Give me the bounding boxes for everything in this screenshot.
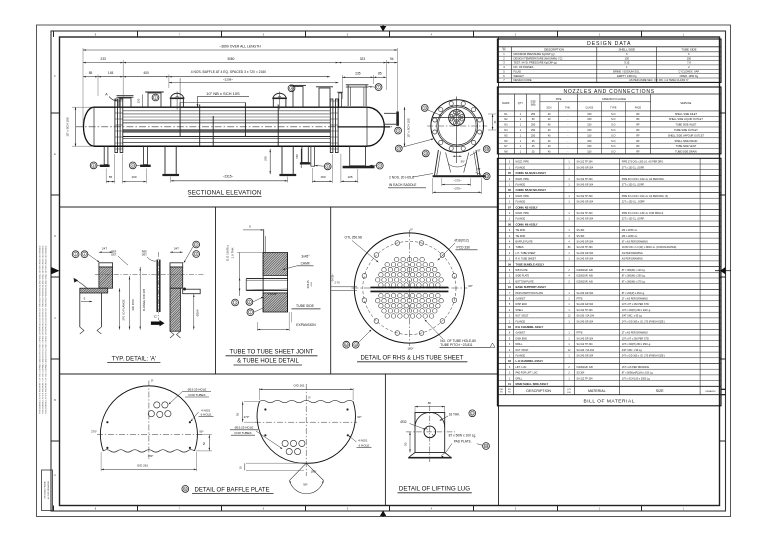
svg-text:SA 240 GR 304: SA 240 GR 304 bbox=[577, 252, 594, 255]
svg-text:150: 150 bbox=[587, 151, 592, 154]
svg-text:M: M bbox=[184, 487, 186, 491]
svg-text:8T x 50(W)x(PL)(H) x 100 Lg.: 8T x 50(W)x(PL)(H) x 100 Lg. bbox=[622, 372, 654, 375]
svg-text:C: C bbox=[54, 316, 56, 320]
svg-text:TIE ROD: TIE ROD bbox=[516, 235, 526, 238]
svg-text:SA 240 GR 304: SA 240 GR 304 bbox=[577, 355, 594, 358]
detail A: right flange hatched bbox=[149, 267, 206, 288]
svg-text:NO. OF PASSES: NO. OF PASSES bbox=[514, 65, 534, 69]
tubesheet bolt holes x12 bbox=[452, 298, 457, 303]
svg-text:FLANGE O/D 365: FLANGE O/D 365 bbox=[142, 288, 146, 311]
svg-text:PIPE 33.4 O/D x 145 LG. FOR DR: PIPE 33.4 O/D x 145 LG. FOR DRILLS bbox=[622, 212, 664, 215]
svg-text:CYCLOHEX. VAP.: CYCLOHEX. VAP. bbox=[678, 70, 699, 74]
svg-text:24T: 24T bbox=[174, 247, 179, 251]
lug base weld flare bbox=[409, 453, 450, 457]
svg-text:22T x 150 CL.,SORF.: 22T x 150 CL.,SORF. bbox=[622, 218, 645, 221]
svg-text:MATERIAL: MATERIAL bbox=[588, 389, 606, 393]
tube joint: sheet faces bbox=[262, 253, 264, 313]
svg-text:SA 193 / SA 194: SA 193 / SA 194 bbox=[577, 349, 595, 352]
svg-text:3080: 3080 bbox=[227, 57, 234, 61]
svg-text:200: 200 bbox=[263, 156, 267, 161]
svg-text:SA 312 TP 304: SA 312 TP 304 bbox=[577, 343, 594, 346]
svg-text:SS 304: SS 304 bbox=[577, 229, 586, 232]
svg-text:TUBE SIDE OUTLET: TUBE SIDE OUTLET bbox=[674, 129, 698, 132]
svg-text:A2 SIZE DRAWING: A2 SIZE DRAWING bbox=[47, 480, 50, 499]
tube joint: lower tubesheet block hatched bbox=[244, 293, 307, 312]
svg-text:Ø19.25 HOLE: Ø19.25 HOLE bbox=[235, 426, 254, 430]
svg-text:FLANGE: FLANGE bbox=[516, 320, 526, 323]
detail A: dim line 330 PCD bbox=[129, 276, 131, 330]
svg-text:GASKET: GASKET bbox=[516, 332, 526, 335]
tie line above shell between baffles bbox=[180, 102, 245, 104]
lug centerlines bbox=[429, 406, 431, 463]
svg-text:16 THK.: 16 THK. bbox=[449, 412, 461, 416]
svg-text:6 HOLE: 6 HOLE bbox=[201, 413, 212, 417]
svg-text:SA 240 GR 304: SA 240 GR 304 bbox=[577, 292, 594, 295]
baffle view2 chord wavy bbox=[259, 400, 353, 402]
svg-text:BASE SUPPORT ASSLY: BASE SUPPORT ASSLY bbox=[516, 285, 547, 289]
svg-text:SA 312 TP 304: SA 312 TP 304 bbox=[577, 195, 594, 198]
detail A: left shell plate hatched bbox=[75, 288, 114, 293]
svg-text:OPER. 1950 Kg: OPER. 1950 Kg bbox=[680, 74, 699, 78]
baffle view2 right arc bbox=[306, 402, 355, 464]
drawing area border bbox=[60, 37, 720, 506]
shell barrel outline bbox=[94, 106, 367, 108]
bottom nozzle stub C bbox=[302, 146, 308, 162]
svg-text:SHELL: SHELL bbox=[516, 309, 524, 312]
svg-text:SHELL SIDE VAPOUR OUTLET: SHELL SIDE VAPOUR OUTLET bbox=[668, 134, 704, 137]
end view center lines bbox=[427, 125, 487, 127]
svg-text:150: 150 bbox=[625, 56, 630, 60]
svg-text:S.O: S.O bbox=[611, 134, 615, 137]
svg-text:O.D 19.05 x: O.D 19.05 x bbox=[225, 245, 229, 262]
svg-text:27T x 150 CL.,SORF.: 27T x 150 CL.,SORF. bbox=[622, 184, 645, 187]
svg-text:'C': 'C' bbox=[154, 315, 158, 319]
svg-text:SS 304: SS 304 bbox=[577, 372, 586, 375]
svg-text:8T x 300(W) x 120 Lg.: 8T x 300(W) x 120 Lg. bbox=[622, 269, 646, 272]
svg-text:S.O: S.O bbox=[611, 129, 615, 132]
svg-text:Ø18(X12): Ø18(X12) bbox=[455, 238, 469, 242]
svg-text:RF: RF bbox=[636, 140, 640, 143]
svg-text:Ø264: Ø264 bbox=[196, 309, 200, 316]
svg-text:8T x 234(P) x 264 Lg.: 8T x 234(P) x 264 Lg. bbox=[622, 292, 645, 295]
detail A: right channel wall hatched bbox=[127, 288, 224, 331]
svg-text:EXPANSION: EXPANSION bbox=[296, 323, 316, 327]
svg-text:M6 x 1435 LG.: M6 x 1435 LG. bbox=[622, 235, 638, 238]
svg-text:TUBE PITCH ~23.811: TUBE PITCH ~23.811 bbox=[440, 343, 472, 347]
svg-text:IS2062GR. A/B: IS2062GR. A/B bbox=[577, 280, 594, 283]
detail A: balloons right bbox=[193, 241, 200, 248]
nozzle N5 on channel top bbox=[347, 85, 349, 106]
balloon stub B bbox=[129, 162, 136, 169]
svg-text:3/4T UNC. x 90 Lg.: 3/4T UNC. x 90 Lg. bbox=[622, 315, 643, 318]
svg-text:SIZE: SIZE bbox=[656, 389, 665, 393]
detail A: channel side plate bbox=[183, 289, 201, 294]
svg-text:DESIGN CODE: DESIGN CODE bbox=[514, 78, 532, 82]
panel divider vertical drawings/tables bbox=[498, 37, 500, 506]
svg-text:S.O: S.O bbox=[611, 118, 615, 121]
balloon stub D bbox=[376, 162, 383, 169]
svg-text:SA 312 TP 304: SA 312 TP 304 bbox=[577, 309, 594, 312]
svg-text:270°: 270° bbox=[91, 430, 97, 434]
detail A: balloons top left bbox=[72, 251, 79, 258]
svg-text:DESIGN TEMPERATURE (MAX/MIN): DESIGN TEMPERATURE (MAX/MIN) (°C) bbox=[514, 56, 563, 60]
svg-text:SHELL SIDE LIQUID OUTLET: SHELL SIDE LIQUID OUTLET bbox=[669, 118, 703, 121]
detail A: dim line 270 ID flange bbox=[119, 288, 121, 330]
bom header row bbox=[497, 385, 721, 387]
svg-text:3/4T UNC. x 90 Lg.: 3/4T UNC. x 90 Lg. bbox=[622, 349, 643, 352]
svg-text:250: 250 bbox=[531, 129, 536, 132]
lug balloon 12 bbox=[469, 410, 476, 417]
saddle wedge lines 36 deg bbox=[446, 153, 451, 173]
svg-text:SA 240 GR 304: SA 240 GR 304 bbox=[577, 303, 594, 306]
svg-text:L.H CHANNEL ASSLY: L.H CHANNEL ASSLY bbox=[516, 359, 544, 363]
tube joint: upper tubesheet block hatched bbox=[240, 253, 311, 276]
svg-text:GASKET: GASKET bbox=[516, 298, 526, 301]
end view right dim 60 bbox=[492, 114, 494, 130]
end view bolt holes bbox=[478, 130, 482, 134]
tubesheet bolt circle dashed bbox=[363, 241, 456, 334]
svg-text:90°: 90° bbox=[303, 482, 308, 486]
detail A: weld symbol left bbox=[76, 280, 88, 289]
svg-text:FOR TUBES: FOR TUBES bbox=[188, 393, 205, 397]
pass partition projection left bbox=[331, 286, 357, 288]
svg-text:250: 250 bbox=[531, 124, 536, 127]
baffle plates inside shell bbox=[179, 103, 181, 137]
svg-text:IS2062GR. A/B: IS2062GR. A/B bbox=[577, 269, 594, 272]
svg-text:& TUBE HOLE DETAIL: & TUBE HOLE DETAIL bbox=[237, 359, 299, 365]
end view nozzle chord line bbox=[433, 117, 482, 119]
svg-text:S.O: S.O bbox=[611, 145, 615, 148]
svg-text:SA 312 TP 304: SA 312 TP 304 bbox=[577, 377, 594, 380]
svg-text:105: 105 bbox=[347, 175, 352, 179]
svg-text:TUBE SIDE VENT: TUBE SIDE VENT bbox=[676, 145, 697, 148]
svg-text:6T x AS PER DRAWING: 6T x AS PER DRAWING bbox=[622, 241, 648, 244]
svg-text:DET.: DET. bbox=[142, 253, 148, 256]
svg-text:~275~: ~275~ bbox=[453, 186, 462, 190]
lug plate rect bbox=[415, 413, 445, 453]
bom zone tick right bbox=[721, 388, 726, 390]
bottom nozzle stub B with flange bbox=[144, 146, 148, 164]
right head horizontal nozzle N4 bbox=[384, 112, 396, 114]
svg-text:PASS PARTITION PLATE: PASS PARTITION PLATE bbox=[516, 292, 544, 295]
svg-text:RF: RF bbox=[636, 151, 640, 154]
svg-text:~2208~: ~2208~ bbox=[223, 77, 233, 81]
svg-text:2.70: 2.70 bbox=[334, 280, 340, 284]
svg-text:250: 250 bbox=[531, 134, 536, 137]
svg-text:90°: 90° bbox=[199, 430, 203, 434]
svg-text:10T x 310(H) 260 x 200 Lg.: 10T x 310(H) 260 x 200 Lg. bbox=[622, 309, 651, 312]
svg-text:NOZZ. PIPE: NOZZ. PIPE bbox=[516, 212, 530, 215]
svg-text:24T: 24T bbox=[102, 247, 107, 251]
svg-text:150: 150 bbox=[320, 175, 325, 179]
tube joint: top stub line bbox=[263, 229, 265, 252]
svg-text:150: 150 bbox=[295, 154, 299, 159]
svg-text:150: 150 bbox=[587, 118, 592, 121]
svg-text:56: 56 bbox=[202, 442, 206, 446]
tube joint: left dim arrows bbox=[239, 253, 241, 297]
svg-text:270°: 270° bbox=[244, 415, 250, 419]
zone ticks left band bbox=[51, 112, 60, 114]
svg-text:80: 80 bbox=[428, 401, 432, 405]
svg-text:PIPE 273 O/D x 205 LG. AS PER: PIPE 273 O/D x 205 LG. AS PER DRG. bbox=[622, 161, 664, 164]
left dished head bbox=[84, 107, 95, 146]
svg-text:TUBE BUNDLE ASSLY: TUBE BUNDLE ASSLY bbox=[516, 262, 545, 266]
zone ticks top band bbox=[53, 31, 55, 37]
panel divider horizontal row2/row3 bbox=[60, 373, 499, 375]
svg-text:SHELL SIDE INLET: SHELL SIDE INLET bbox=[675, 113, 698, 116]
svg-text:85: 85 bbox=[89, 71, 93, 75]
lug hole bbox=[424, 426, 436, 438]
zone ticks bottom band bbox=[53, 506, 55, 512]
svg-text:27T x 150 CL.,SORF.: 27T x 150 CL.,SORF. bbox=[622, 166, 645, 169]
detail A: left flange hatched bbox=[78, 267, 135, 288]
svg-text:SIDE PLATE: SIDE PLATE bbox=[516, 275, 530, 278]
svg-text:S.O: S.O bbox=[611, 124, 615, 127]
svg-text:Ø32: Ø32 bbox=[401, 420, 407, 424]
svg-text:D: D bbox=[54, 234, 56, 238]
end view shell circles bbox=[437, 106, 478, 147]
svg-text:REMARKS: REMARKS bbox=[706, 390, 717, 393]
svg-text:PCD 330: PCD 330 bbox=[457, 245, 471, 249]
tube holes field bbox=[375, 257, 443, 318]
svg-text:AS PER ASME SEC. VIII DIV. 1 &: AS PER ASME SEC. VIII DIV. 1 & TEMA CLAS… bbox=[629, 78, 689, 82]
svg-text:B: B bbox=[54, 398, 56, 402]
svg-text:50: 50 bbox=[403, 442, 407, 446]
small stub on channel top bbox=[339, 93, 342, 107]
svg-text:S.O: S.O bbox=[611, 151, 615, 154]
svg-text:RF: RF bbox=[636, 129, 640, 132]
svg-text:180°: 180° bbox=[407, 347, 414, 351]
svg-text:6 HOLE: 6 HOLE bbox=[359, 443, 370, 447]
svg-text:150: 150 bbox=[587, 113, 592, 116]
svg-text:DRILL: DRILL bbox=[516, 377, 523, 380]
svg-text:S.O: S.O bbox=[611, 140, 615, 143]
svg-text:24T x O/D 365 x I.D. 270 (FINI: 24T x O/D 365 x I.D. 270 (FINISH SIZE ) bbox=[622, 320, 665, 323]
svg-text:RF: RF bbox=[636, 124, 640, 127]
svg-text:DETAIL OF RHS & LHS TUBE SHEET: DETAIL OF RHS & LHS TUBE SHEET bbox=[361, 355, 464, 361]
svg-text:SA 193 / SA 194: SA 193 / SA 194 bbox=[577, 315, 595, 318]
svg-text:8T x 300(W) x 250 Lg.: 8T x 300(W) x 250 Lg. bbox=[622, 275, 646, 278]
svg-text:56: 56 bbox=[236, 412, 240, 416]
svg-text:19.05 O/D x 1.6 (W) x 3000 LG.: 19.05 O/D x 1.6 (W) x 3000 LG. (CONSOLID… bbox=[622, 246, 677, 249]
tubesheet outer circle bbox=[354, 233, 464, 343]
baffle view2 bolt dots bbox=[264, 408, 266, 410]
detail A: dim line flange OD 365 bbox=[139, 267, 141, 330]
channel pass partition plate bbox=[338, 126, 390, 128]
tube bundle upper tubes bbox=[123, 110, 330, 112]
svg-text:MARK: MARK bbox=[502, 102, 510, 105]
svg-text:DESCRIPTION: DESCRIPTION bbox=[544, 48, 564, 52]
svg-text:THIS DRAWING IS THE PROPERTY O: THIS DRAWING IS THE PROPERTY OF THE COMP… bbox=[42, 245, 45, 414]
svg-text:O/D 261: O/D 261 bbox=[137, 464, 149, 468]
svg-text:E: E bbox=[54, 152, 56, 156]
svg-text:~24.05~: ~24.05~ bbox=[331, 273, 334, 282]
baffle view1 chord wavy bbox=[103, 450, 194, 452]
svg-text:BRINE / SODIUM SOL.: BRINE / SODIUM SOL. bbox=[613, 70, 640, 74]
zone ticks right band bbox=[720, 112, 726, 114]
svg-text:R.H CHANNEL ASSLY: R.H CHANNEL ASSLY bbox=[516, 325, 544, 329]
balloon end view left of saddle bbox=[422, 150, 429, 157]
svg-text:160: 160 bbox=[131, 175, 136, 179]
balloon end view top left bbox=[421, 105, 428, 112]
end view outer flange circle bbox=[431, 100, 484, 153]
detail A: left shell wall below bbox=[79, 293, 81, 327]
bottom nozzle stub C2 bbox=[311, 146, 315, 166]
svg-text:FLANGE: FLANGE bbox=[516, 166, 526, 169]
svg-text:SA 240 GR 304: SA 240 GR 304 bbox=[577, 166, 594, 169]
nozzle stub T3 with balloon bbox=[293, 87, 303, 108]
svg-text:235: 235 bbox=[355, 72, 361, 76]
bottom nozzle stub A with flange bbox=[104, 146, 108, 164]
svg-text:TUBE SIDE: TUBE SIDE bbox=[681, 48, 696, 52]
svg-text:85: 85 bbox=[378, 72, 382, 76]
svg-text:CONN. N6 ASSLY: CONN. N6 ASSLY bbox=[516, 222, 538, 226]
svg-text:SA 213 TP 304: SA 213 TP 304 bbox=[577, 246, 594, 249]
detail A: gasket strip center bbox=[156, 260, 158, 312]
svg-text:FLUID: FLUID bbox=[514, 70, 522, 74]
top dim row3 right bbox=[342, 76, 373, 78]
svg-text:150: 150 bbox=[137, 98, 141, 103]
svg-text:145: 145 bbox=[108, 71, 114, 75]
nozzle N3 dome flange bbox=[272, 99, 274, 107]
svg-text:NUT / BOLT: NUT / BOLT bbox=[516, 315, 529, 318]
svg-text:16T x AS PER DRAWING: 16T x AS PER DRAWING bbox=[622, 366, 650, 369]
svg-text:QTY.: QTY. bbox=[518, 102, 524, 105]
nozzle N1 dome flange bbox=[170, 99, 172, 107]
svg-text:0°: 0° bbox=[151, 378, 154, 382]
svg-text:SECTIONAL ELEVATION: SECTIONAL ELEVATION bbox=[187, 189, 261, 196]
svg-text:~2315~: ~2315~ bbox=[223, 175, 234, 179]
svg-text:SA 240 GR 304: SA 240 GR 304 bbox=[577, 337, 594, 340]
tubesheet pass partition bars bbox=[370, 287, 448, 289]
svg-text:FOR TUBES: FOR TUBES bbox=[234, 431, 251, 435]
svg-text:L.H. TUBE SHEET: L.H. TUBE SHEET bbox=[516, 252, 537, 255]
svg-text:RF: RF bbox=[636, 145, 640, 148]
svg-text:PTFE: PTFE bbox=[577, 298, 584, 301]
svg-text:330 PCD: 330 PCD bbox=[131, 299, 135, 310]
svg-text:O/D 261: O/D 261 bbox=[293, 383, 305, 387]
tube joint: bottom dim bbox=[257, 329, 289, 331]
detail A: dim 264 bbox=[193, 294, 195, 330]
svg-text:TUBES: TUBES bbox=[516, 246, 524, 249]
top dim row2 bbox=[83, 62, 123, 64]
svg-text:SS 304: SS 304 bbox=[577, 235, 586, 238]
svg-text:SA 240 GR 304: SA 240 GR 304 bbox=[577, 218, 594, 221]
svg-text:AS PER DRAWING: AS PER DRAWING bbox=[622, 258, 643, 261]
svg-text:1.5x45°: 1.5x45° bbox=[268, 292, 277, 296]
svg-text:SA 240 GR 304: SA 240 GR 304 bbox=[577, 241, 594, 244]
svg-text:R.H. TUBE SHEET: R.H. TUBE SHEET bbox=[516, 258, 537, 261]
svg-text:TYPE: TYPE bbox=[610, 106, 617, 109]
svg-text:SA 240 GR 304: SA 240 GR 304 bbox=[577, 184, 594, 187]
svg-text:+0.05: +0.05 bbox=[311, 282, 313, 287]
lug rounded profile arc bbox=[415, 412, 445, 427]
svg-text:0°: 0° bbox=[308, 395, 311, 399]
svg-text:TUBE SIDE DRAIN: TUBE SIDE DRAIN bbox=[675, 151, 697, 154]
svg-text:SIZE: SIZE bbox=[531, 102, 537, 104]
svg-text:10" x SCH 10S: 10" x SCH 10S bbox=[66, 117, 70, 136]
vessel centerline bbox=[76, 126, 392, 128]
svg-text:(NB): (NB) bbox=[531, 105, 536, 107]
svg-text:NO: NO bbox=[503, 48, 506, 50]
svg-text:DET.: DET. bbox=[111, 253, 117, 256]
svg-text:150: 150 bbox=[587, 129, 592, 132]
svg-text:SERVICE: SERVICE bbox=[680, 102, 691, 105]
svg-text:SA 240 GR 304: SA 240 GR 304 bbox=[577, 258, 594, 261]
right girth flange / tubesheet bbox=[330, 99, 333, 153]
svg-text:270 I.D FLANGE: 270 I.D FLANGE bbox=[122, 299, 126, 320]
svg-text:4 NOS. BAFFLE AT 4 EQ. SPACED: 4 NOS. BAFFLE AT 4 EQ. SPACED 3 x 720 = … bbox=[191, 70, 266, 74]
svg-text:MAIN SHELL SIDE ASSLY: MAIN SHELL SIDE ASSLY bbox=[516, 382, 549, 386]
svg-text:CONN. N1,N3,N4 ASSLY: CONN. N1,N3,N4 ASSLY bbox=[516, 171, 547, 175]
svg-text:10T x 8T x 260 PER STD.: 10T x 8T x 260 PER STD. bbox=[622, 337, 650, 340]
svg-text:CHMF.: CHMF. bbox=[301, 262, 311, 266]
svg-text:DISH END: DISH END bbox=[516, 303, 528, 306]
nozzle stub T2 with balloon 2 bbox=[148, 93, 161, 107]
svg-text:TIE ROD: TIE ROD bbox=[516, 229, 526, 232]
svg-text:PTFE: PTFE bbox=[577, 332, 584, 335]
nozzles and connections table bbox=[497, 87, 721, 154]
svg-text:IN EACH SADDLE: IN EACH SADDLE bbox=[389, 183, 417, 187]
svg-text:DESIGN DATA: DESIGN DATA bbox=[587, 41, 631, 47]
svg-text:PIPE 60.3 O/D x 162 LG. AS PER: PIPE 60.3 O/D x 162 LG. AS PER DRG. bbox=[622, 178, 665, 181]
svg-text:SA 240 GR 304: SA 240 GR 304 bbox=[577, 201, 594, 204]
svg-text:150: 150 bbox=[587, 134, 592, 137]
svg-text:55: 55 bbox=[109, 175, 113, 179]
svg-text:OTL 250.98: OTL 250.98 bbox=[345, 236, 362, 240]
svg-text:FACE: FACE bbox=[635, 106, 642, 109]
baffle view1 tube holes bbox=[154, 402, 160, 408]
svg-text:SHELL SIDE: SHELL SIDE bbox=[618, 48, 635, 52]
svg-text:THK.: THK. bbox=[565, 106, 571, 109]
svg-text:TUBE TO TUBE SHEET JOINT: TUBE TO TUBE SHEET JOINT bbox=[230, 350, 314, 356]
svg-text:SA 312 TP 304: SA 312 TP 304 bbox=[577, 178, 594, 181]
svg-text:DETAIL OF BAFFLE PLATE: DETAIL OF BAFFLE PLATE bbox=[195, 487, 270, 493]
tube bundle lower tubes dark band bbox=[123, 129, 330, 133]
svg-text:BILL OF MATERIAL: BILL OF MATERIAL bbox=[583, 399, 634, 405]
svg-text:8T x 50W x 100 Lg.: 8T x 50W x 100 Lg. bbox=[449, 433, 477, 437]
balloon nozzle N4 bbox=[395, 127, 402, 134]
right dished head bbox=[367, 107, 384, 146]
svg-text:150: 150 bbox=[587, 140, 592, 143]
saddle support 1 bbox=[164, 146, 166, 174]
saddle small dim arrows bbox=[453, 155, 462, 157]
detail A: centerline flanges bbox=[95, 274, 205, 276]
svg-text:S.O: S.O bbox=[611, 113, 615, 116]
svg-text:CLASS: CLASS bbox=[585, 106, 593, 109]
panel divider vertical tubejoint/tubesheet bbox=[330, 207, 332, 374]
svg-text:FLANGE: FLANGE bbox=[516, 355, 526, 358]
left girth flange / tubesheet bbox=[115, 99, 118, 153]
baffle view1 arc bbox=[100, 386, 197, 451]
svg-text:RF: RF bbox=[636, 113, 640, 116]
svg-text:SA 312 TP 304: SA 312 TP 304 bbox=[577, 161, 594, 164]
nozzle stub T1 on shell top left bbox=[119, 98, 131, 107]
svg-text:RF: RF bbox=[636, 134, 640, 137]
baffle view2 left arc bbox=[257, 402, 306, 464]
saddle front view legs bbox=[435, 150, 439, 175]
svg-text:RF: RF bbox=[636, 118, 640, 121]
svg-text:323: 323 bbox=[360, 57, 366, 61]
svg-text:233: 233 bbox=[100, 57, 106, 61]
nozzle stub T4 bbox=[319, 88, 330, 107]
baffle view2 90 deg sector bbox=[290, 463, 307, 480]
svg-text:IS2062GR. A/B: IS2062GR. A/B bbox=[577, 275, 594, 278]
svg-text:250: 250 bbox=[531, 113, 536, 116]
svg-text:FLANGE: FLANGE bbox=[516, 218, 526, 221]
svg-text:NOZZ. PIPE: NOZZ. PIPE bbox=[516, 195, 530, 198]
svg-text:IS2062GR. A/B: IS2062GR. A/B bbox=[577, 366, 594, 369]
